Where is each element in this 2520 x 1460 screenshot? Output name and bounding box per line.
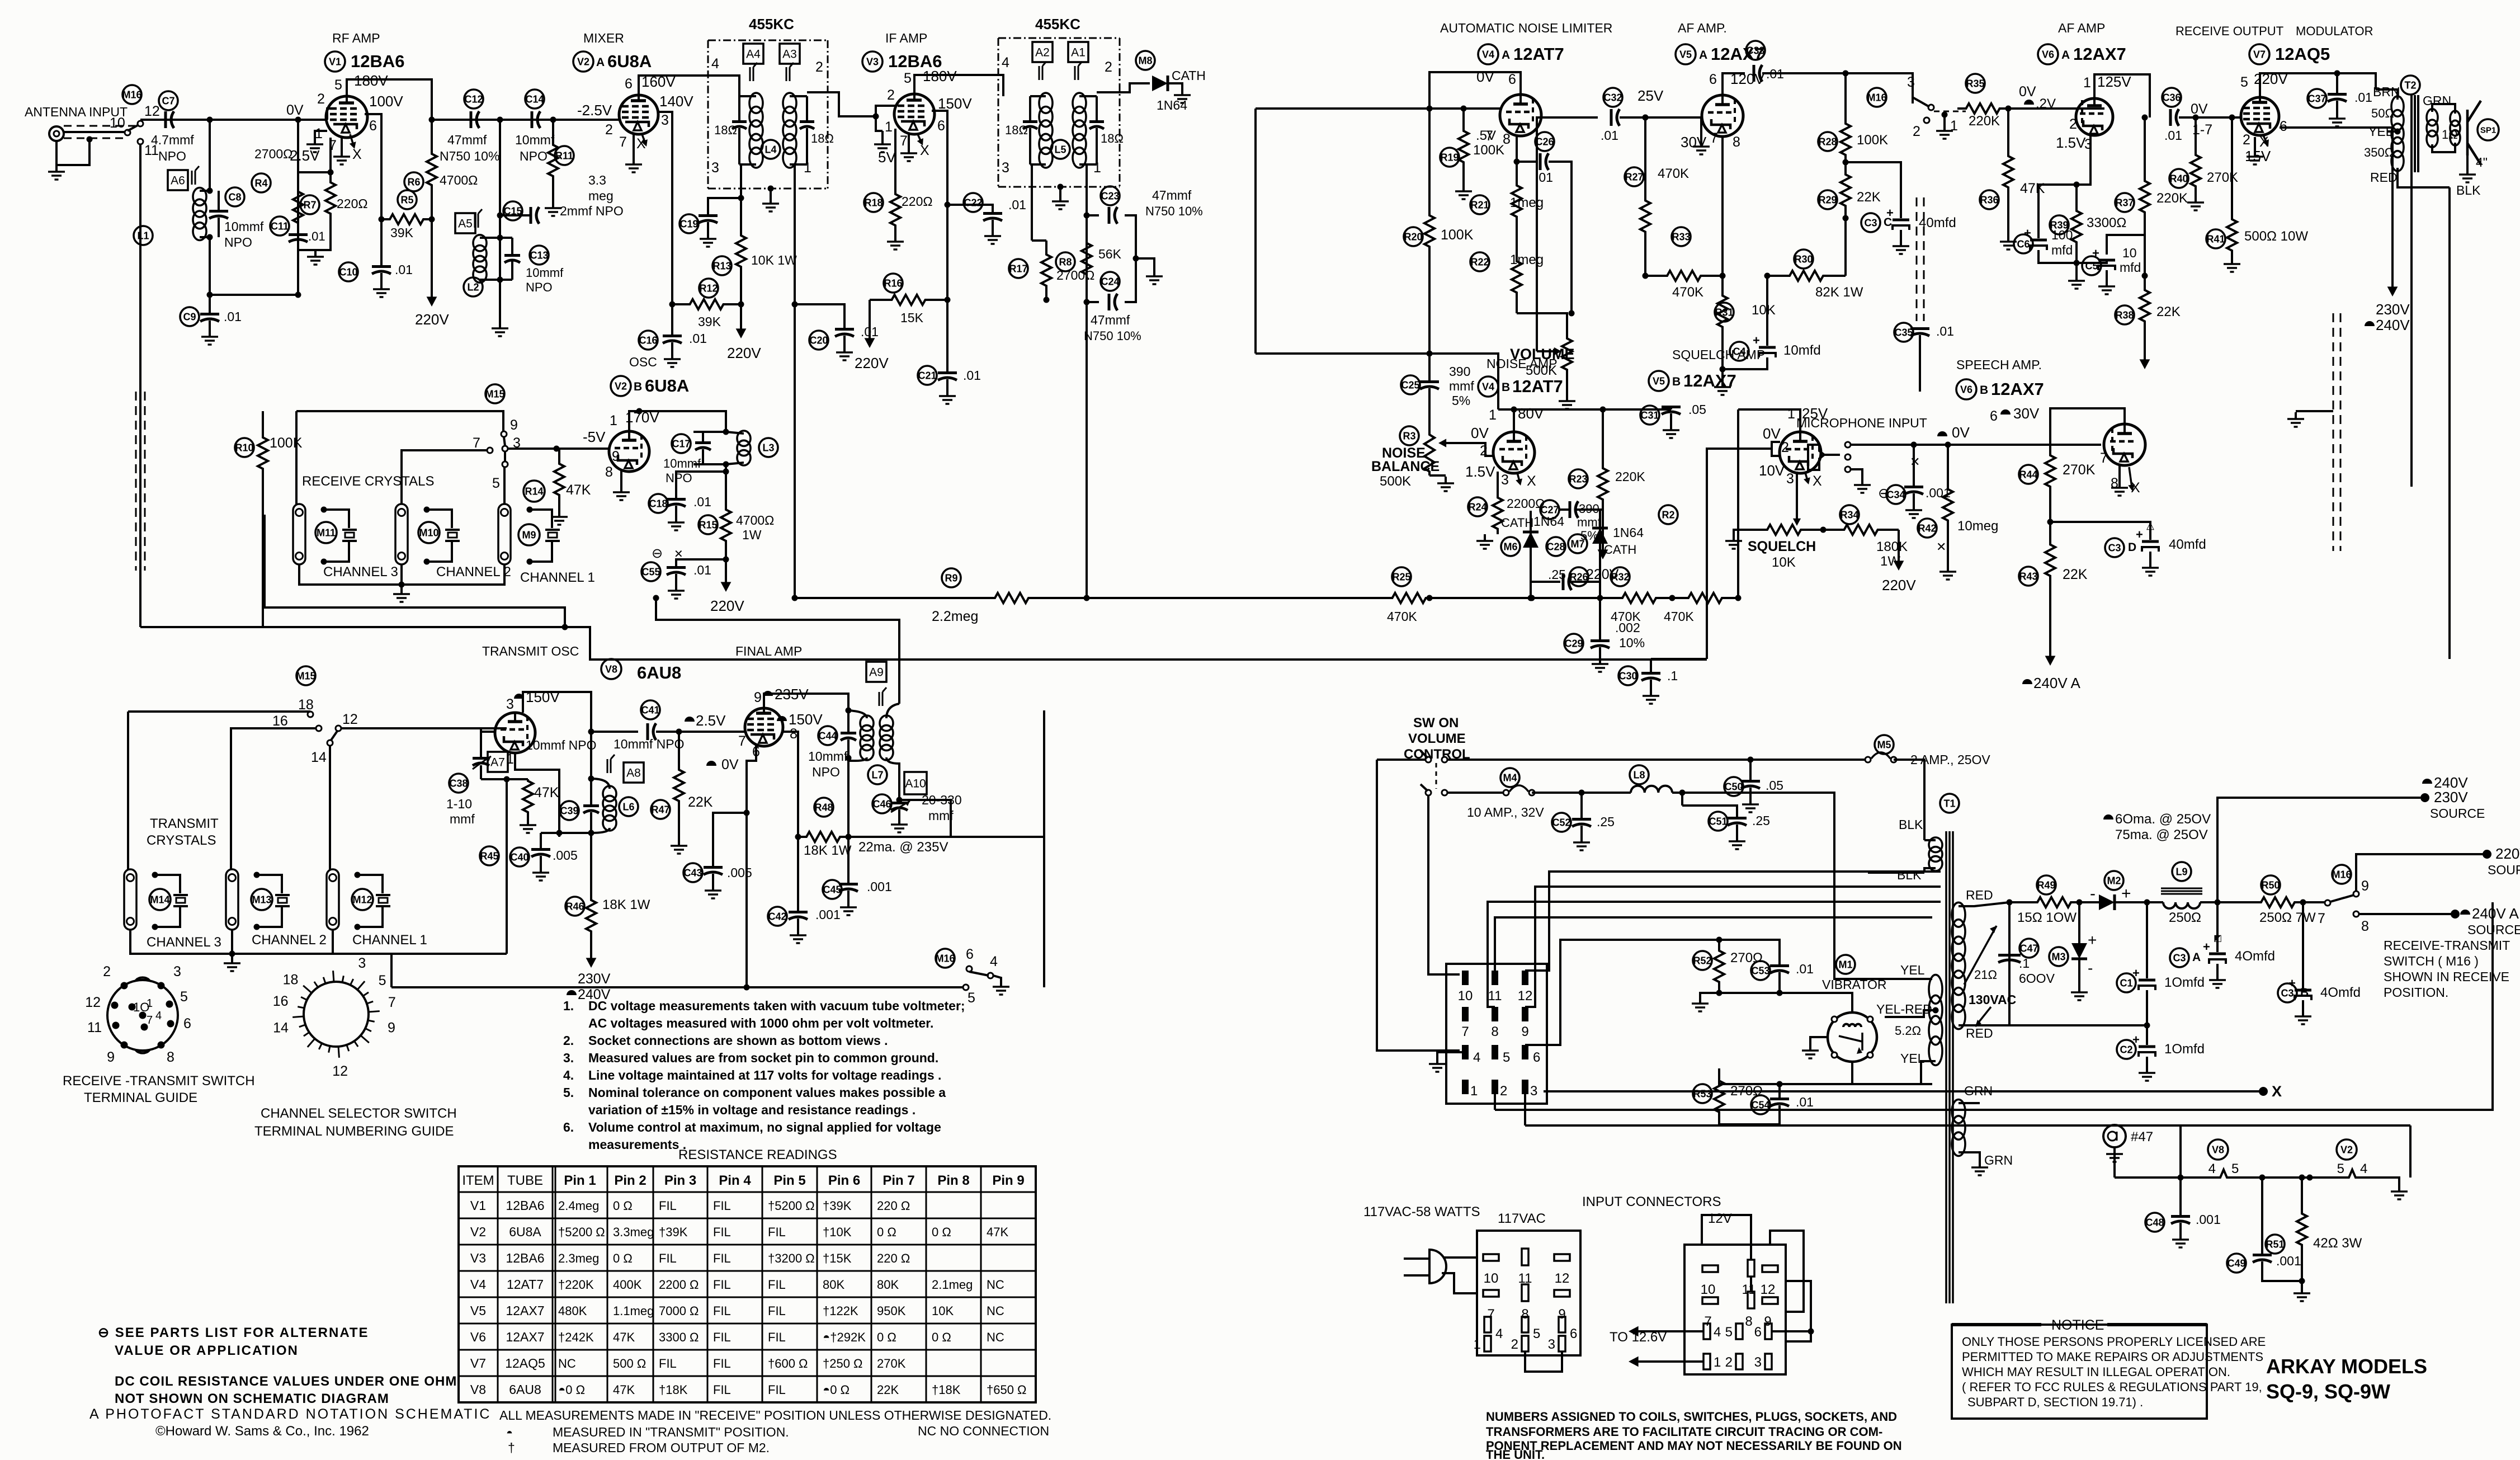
- svg-text:0 Ω: 0 Ω: [877, 1330, 896, 1344]
- svg-text:18Ω: 18Ω: [714, 123, 737, 137]
- ground C10: [380, 282, 383, 289]
- svg-text:8: 8: [2111, 475, 2118, 491]
- svg-text:5: 5: [968, 990, 975, 1006]
- svg-text:R51: R51: [2266, 1238, 2284, 1250]
- wire L5 pin3 down to R17: [1031, 164, 1033, 241]
- svg-text:R34: R34: [1840, 509, 1858, 520]
- svg-text:240V A: 240V A: [2472, 905, 2519, 922]
- tube V5A 12AX7 AF amp: [1702, 95, 1743, 136]
- diode M8 1N64: [1152, 76, 1168, 91]
- wire harness verticals: [1428, 796, 1460, 974]
- svg-text:R27: R27: [1625, 171, 1643, 182]
- resistor R49 15ohm 10W: [2037, 875, 2056, 894]
- wire switch pole1 to M5: [1447, 759, 1866, 761]
- svg-text:6: 6: [1990, 408, 1998, 424]
- svg-text:500K: 500K: [1526, 363, 1557, 378]
- svg-text:4: 4: [1714, 1325, 1721, 1340]
- svg-text:.25: .25: [1597, 814, 1615, 829]
- svg-text:4.7mmf: 4.7mmf: [151, 133, 194, 147]
- svg-text:R17: R17: [1009, 263, 1027, 274]
- label V6B 12AX7: [1956, 379, 1976, 399]
- svg-text:FIL: FIL: [713, 1251, 731, 1265]
- svg-text:.05: .05: [1688, 402, 1706, 417]
- wire L4 secondary to V3 grid: [807, 92, 876, 116]
- svg-text:.05: .05: [1766, 778, 1783, 793]
- label M8: [1136, 51, 1155, 70]
- svg-text:A: A: [1502, 49, 1510, 62]
- resistor R18 220ohm: [864, 193, 883, 212]
- X arrow mixer: [642, 134, 645, 143]
- wire pin2 pin3 down to heater harness: [1494, 1094, 1496, 1110]
- ground L2: [499, 322, 501, 328]
- svg-text:NC: NC: [987, 1304, 1004, 1318]
- capacitor C3B 40mfd: [2278, 983, 2297, 1002]
- svg-text:VOLUME: VOLUME: [1510, 346, 1575, 362]
- wire antenna link to switch: [899, 800, 951, 837]
- svg-text:CHANNEL SELECTOR SWITCH: CHANNEL SELECTOR SWITCH: [261, 1106, 457, 1121]
- label M15 receive selector: [485, 384, 504, 403]
- capacitor C46 20-330mmf: [872, 794, 891, 813]
- svg-text:1: 1: [315, 126, 323, 142]
- ground C9: [209, 330, 211, 337]
- capacitor C11 .01: [270, 216, 289, 236]
- svg-text:150V: 150V: [789, 711, 823, 728]
- svg-text:18Ω: 18Ω: [1101, 131, 1124, 145]
- coil L3: [737, 431, 751, 446]
- coil L5 secondary: [1073, 93, 1086, 113]
- svg-text:.25: .25: [1548, 567, 1566, 582]
- svg-text:470K: 470K: [1664, 609, 1694, 624]
- tube V3 12BA6 IF amp: [894, 94, 935, 134]
- wire M11 hanger: [295, 411, 298, 504]
- svg-text:18: 18: [298, 697, 314, 713]
- svg-text:TUBE: TUBE: [507, 1173, 543, 1188]
- svg-text:.01: .01: [395, 262, 413, 277]
- svg-text:6Oma. @ 25OV: 6Oma. @ 25OV: [2115, 812, 2211, 827]
- label V2 filament: [2337, 1139, 2357, 1160]
- svg-text:NC NO CONNECTION: NC NO CONNECTION: [918, 1424, 1049, 1438]
- svg-text:C1: C1: [2120, 977, 2132, 988]
- coil L4 primary: [749, 93, 763, 113]
- speaker cone: [2467, 101, 2481, 164]
- svg-text:AF AMP.: AF AMP.: [1678, 21, 1727, 35]
- svg-text:22ma. @ 235V: 22ma. @ 235V: [858, 840, 948, 855]
- svg-text:C51: C51: [1709, 816, 1727, 827]
- svg-text:FIL: FIL: [768, 1278, 786, 1292]
- ground M8: [1181, 88, 1183, 95]
- resistor R4 2700ohm: [252, 173, 271, 192]
- 12 pin socket outline: [1446, 964, 1547, 1104]
- svg-text:220K: 220K: [1615, 469, 1645, 484]
- svg-text:0 Ω: 0 Ω: [613, 1199, 633, 1213]
- svg-text:FIL: FIL: [659, 1199, 677, 1213]
- svg-text:R47: R47: [651, 804, 669, 815]
- wire bus continues: [1443, 597, 1606, 599]
- svg-text:CHANNEL 3: CHANNEL 3: [147, 935, 221, 950]
- wire R34 to 220V arrow: [1898, 530, 1900, 545]
- svg-text:NOTICE: NOTICE: [2051, 1317, 2104, 1333]
- 117VAC pins row 7 8 9: [1483, 1290, 1499, 1297]
- coil L1: [193, 188, 206, 206]
- tube V6B 12AX7 speech amp: [2104, 424, 2145, 465]
- svg-text:NC: NC: [987, 1278, 1004, 1292]
- capacitor C16 .01: [639, 331, 658, 350]
- junction R44 bottom: [2047, 519, 2054, 525]
- svg-text:A: A: [2192, 951, 2201, 964]
- crystal M13 channel 2: [257, 875, 282, 893]
- svg-text:.1: .1: [2019, 956, 2030, 971]
- capacitor C30 .1: [1618, 666, 1637, 685]
- svg-text:PONENT REPLACEMENT AND MAY NOT: PONENT REPLACEMENT AND MAY NOT NECESSARI…: [1486, 1439, 1902, 1453]
- svg-text:8: 8: [1745, 1314, 1752, 1329]
- wire final plate 235V to tank top: [764, 694, 848, 710]
- svg-text:6: 6: [1533, 1050, 1540, 1065]
- svg-text:9: 9: [510, 417, 518, 433]
- capacitor C5 10mfd: [2082, 256, 2101, 275]
- resistor R44 270K: [2019, 465, 2038, 484]
- svg-text:C11: C11: [271, 220, 289, 232]
- svg-text:11: 11: [87, 1020, 102, 1035]
- svg-text:C26: C26: [1535, 136, 1554, 147]
- ground pin1: [314, 138, 316, 144]
- svg-text:RECEIVE-TRANSMIT: RECEIVE-TRANSMIT: [2384, 938, 2510, 953]
- svg-text:1Omfd: 1Omfd: [2164, 1042, 2205, 1057]
- svg-text:R7: R7: [303, 199, 316, 210]
- wire final grid line: [744, 731, 745, 733]
- svg-text:270K: 270K: [877, 1357, 906, 1370]
- svg-text:FIL: FIL: [713, 1330, 731, 1344]
- wire 220V arrow under R23: [1602, 526, 1604, 554]
- svg-text:A6: A6: [171, 174, 185, 187]
- svg-text:950K: 950K: [877, 1304, 906, 1318]
- svg-text:12: 12: [1518, 988, 1533, 1004]
- tube V4B 12AT7 noise amp: [1493, 432, 1535, 473]
- svg-text:◩: ◩: [2214, 934, 2222, 943]
- svg-text:R43: R43: [2019, 571, 2037, 582]
- crystal M9 channel 1: [530, 510, 552, 528]
- svg-text:-: -: [2088, 959, 2093, 977]
- svg-text:FIL: FIL: [659, 1251, 677, 1265]
- svg-text:47mmf: 47mmf: [1091, 313, 1130, 327]
- resistor R7 220ohm: [300, 195, 319, 214]
- svg-text:10mmf NPO: 10mmf NPO: [526, 738, 597, 752]
- svg-text:V1: V1: [329, 56, 341, 67]
- svg-text:R45: R45: [480, 850, 498, 861]
- svg-text:A: A: [1699, 49, 1707, 62]
- svg-text:ITEM: ITEM: [462, 1173, 494, 1188]
- 12V pins row 10 11 12: [1702, 1265, 1718, 1272]
- svg-text:R12: R12: [699, 282, 718, 294]
- wire L4 pin3 down: [740, 164, 742, 198]
- label M16: [122, 85, 141, 104]
- svg-text:X: X: [1813, 473, 1822, 489]
- capacitor C35 .01: [1894, 323, 1913, 342]
- wire contact12 to crystal line: [341, 727, 507, 729]
- svg-text:2200Ω: 2200Ω: [1507, 496, 1545, 511]
- svg-text:2.: 2.: [563, 1033, 574, 1048]
- svg-text:C6: C6: [2017, 238, 2030, 249]
- tube V2A 6U8A mixer: [619, 95, 658, 134]
- wire screen pin8 right down: [783, 732, 798, 837]
- wire L5 center tap ground: [1059, 187, 1061, 195]
- label M10: [418, 522, 440, 543]
- svg-text:4: 4: [2360, 1161, 2367, 1176]
- svg-text:+: +: [2024, 226, 2031, 240]
- svg-text:CHANNEL 1: CHANNEL 1: [520, 570, 595, 585]
- svg-text:V2: V2: [2340, 1144, 2353, 1155]
- svg-text:†15K: †15K: [823, 1251, 852, 1265]
- svg-text:VALUE OR APPLICATION: VALUE OR APPLICATION: [115, 1343, 299, 1358]
- wire branch down to L1 tank: [209, 120, 211, 191]
- wire C38 to crystal line: [481, 778, 507, 780]
- svg-text:M15: M15: [296, 670, 315, 681]
- coil L5 primary: [1039, 93, 1053, 113]
- svg-text:RESISTANCE READINGS: RESISTANCE READINGS: [678, 1147, 837, 1162]
- svg-text:R35: R35: [1966, 78, 1984, 89]
- wire plate pin6 to rail to L4: [639, 76, 739, 96]
- svg-text:220V: 220V: [727, 345, 761, 361]
- svg-text:R25: R25: [1392, 571, 1410, 582]
- svg-text:+: +: [2092, 246, 2099, 260]
- receive-transmit switch terminal guide: [107, 980, 178, 1051]
- svg-text:V2: V2: [577, 56, 589, 67]
- wire bottom transmit bus: [391, 986, 966, 988]
- svg-text:220Ω: 220Ω: [337, 196, 368, 211]
- svg-text:47mmf: 47mmf: [1152, 188, 1192, 202]
- svg-text:10mmf: 10mmf: [515, 133, 555, 147]
- svg-text:C41: C41: [641, 704, 659, 715]
- svg-text:B: B: [1980, 384, 1988, 397]
- svg-text:6: 6: [937, 118, 945, 134]
- svg-text:1: 1: [1470, 1084, 1478, 1099]
- wire PSU bottom rail: [2009, 1024, 2147, 1026]
- wire to V4A grid: [1429, 107, 1464, 110]
- capacitor C19 .01: [679, 214, 699, 233]
- svg-text:16: 16: [273, 993, 289, 1009]
- svg-text:1.: 1.: [563, 999, 574, 1013]
- svg-text:47K: 47K: [987, 1225, 1008, 1239]
- svg-text:+: +: [2121, 884, 2131, 903]
- svg-text:.01: .01: [693, 494, 711, 509]
- svg-text:12: 12: [144, 103, 160, 119]
- svg-text:FIL: FIL: [713, 1383, 731, 1397]
- svg-text:V1: V1: [470, 1198, 486, 1213]
- svg-text:2.4meg: 2.4meg: [558, 1199, 599, 1213]
- wire osc cathode down to bus: [515, 753, 559, 837]
- svg-text:C48: C48: [2145, 1217, 2164, 1228]
- ground GRN winding: [1979, 1161, 1981, 1167]
- wire V7 grid entry: [2229, 116, 2241, 119]
- ground C30: [1650, 689, 1652, 696]
- capacitor C55 .01: [641, 562, 660, 581]
- wire pin11 up harness: [1495, 917, 1932, 971]
- svg-text:0V: 0V: [1952, 424, 1970, 441]
- svg-text:FIL: FIL: [713, 1225, 731, 1239]
- svg-text:R37: R37: [2115, 197, 2134, 208]
- svg-text:V4: V4: [470, 1277, 486, 1292]
- wire to R50: [2217, 901, 2253, 903]
- svg-text:SWITCH ( M16 ): SWITCH ( M16 ): [2384, 954, 2479, 968]
- svg-text:THE UNIT.: THE UNIT.: [1486, 1448, 1545, 1460]
- svg-text:6OOV: 6OOV: [2019, 971, 2055, 986]
- svg-text:C27: C27: [1540, 504, 1559, 515]
- svg-text:RECEIVE -TRANSMIT SWITCH: RECEIVE -TRANSMIT SWITCH: [63, 1073, 255, 1089]
- svg-text:9: 9: [388, 1020, 395, 1036]
- trimmer A2: [1032, 42, 1053, 62]
- capacitor C53 .01: [1751, 961, 1770, 980]
- svg-text:V8: V8: [605, 663, 617, 675]
- svg-text:10: 10: [1484, 1271, 1499, 1286]
- resistor R38 22K: [2115, 305, 2134, 324]
- wire pin11 down to lower bus: [139, 144, 141, 627]
- svg-text:V4: V4: [1482, 49, 1494, 60]
- capacitor C28 .25: [1546, 537, 1565, 556]
- svg-text:30V: 30V: [1681, 134, 1707, 150]
- svg-text:3: 3: [1501, 472, 1509, 488]
- svg-text:⊖ SEE PARTS LIST FOR ALTERNATE: ⊖ SEE PARTS LIST FOR ALTERNATE: [98, 1325, 369, 1340]
- svg-text:V3: V3: [866, 56, 879, 67]
- capacitor C42 .001: [768, 907, 787, 926]
- svg-text:6: 6: [966, 946, 974, 962]
- svg-text:3.3: 3.3: [588, 173, 606, 187]
- svg-text:R6: R6: [407, 176, 420, 187]
- svg-text:-5V: -5V: [583, 428, 606, 445]
- svg-text:5%: 5%: [1580, 529, 1598, 543]
- svg-text:A7: A7: [490, 756, 505, 769]
- label M16 psu switch: [2332, 865, 2351, 884]
- svg-text:Line voltage maintained at 117: Line voltage maintained at 117 volts for…: [588, 1068, 941, 1082]
- wire plate loop 0V: [1429, 72, 1521, 109]
- svg-text:.25: .25: [1752, 813, 1770, 828]
- svg-text:18K 1W: 18K 1W: [804, 843, 852, 858]
- svg-text:.01: .01: [1601, 128, 1618, 143]
- ground V5A grid stub: [1700, 117, 1702, 140]
- svg-text:B: B: [2300, 986, 2309, 999]
- svg-text:7: 7: [2100, 450, 2108, 466]
- svg-text:†10K: †10K: [823, 1225, 852, 1239]
- svg-text:M4: M4: [1503, 772, 1517, 783]
- svg-text:RED: RED: [1966, 1026, 1993, 1040]
- svg-text:220K: 220K: [1969, 114, 2000, 129]
- svg-text:R23: R23: [1569, 473, 1587, 484]
- capacitor C45 .001: [823, 880, 842, 899]
- svg-text:A8: A8: [626, 766, 641, 779]
- wire V1 plate to mixer grid: [432, 119, 604, 121]
- ground C21: [946, 389, 948, 396]
- svg-text:47K: 47K: [613, 1330, 635, 1344]
- svg-text:12BA6: 12BA6: [506, 1251, 544, 1265]
- resistor R50 250ohm 7W: [2261, 875, 2280, 894]
- svg-text:22K: 22K: [2156, 304, 2181, 319]
- svg-text:240V: 240V: [2376, 317, 2410, 333]
- ground stub C23 C24: [1136, 258, 1154, 270]
- svg-text:M5: M5: [1877, 739, 1891, 750]
- svg-text:47K: 47K: [613, 1383, 635, 1397]
- svg-text:CHANNEL 2: CHANNEL 2: [252, 932, 327, 948]
- wire shield ground branch: [56, 139, 89, 165]
- svg-text:C33: C33: [1746, 45, 1764, 56]
- svg-text:C30: C30: [1618, 670, 1637, 681]
- svg-text:FIL: FIL: [713, 1304, 731, 1318]
- svg-text:C17: C17: [672, 438, 690, 449]
- svg-text:RF AMP: RF AMP: [332, 31, 380, 45]
- wire R38 down arrow: [2144, 336, 2146, 364]
- svg-text:V5: V5: [1653, 375, 1665, 387]
- svg-text:L2: L2: [467, 281, 479, 293]
- svg-text:R38: R38: [2115, 309, 2134, 321]
- capacitor C10 .01: [339, 262, 358, 281]
- resistor R11 3.3meg: [555, 146, 574, 165]
- svg-text:X: X: [1527, 473, 1536, 489]
- svg-text:BLK: BLK: [2456, 183, 2481, 197]
- capacitor C27 390mmf: [1540, 500, 1559, 519]
- svg-text:C21: C21: [918, 370, 936, 381]
- svg-text:CHANNEL 2: CHANNEL 2: [436, 564, 511, 580]
- wire rail to T2: [2326, 73, 2376, 90]
- svg-text:Measured values are from socke: Measured values are from socket pin to c…: [588, 1051, 938, 1065]
- svg-text:220V: 220V: [1882, 577, 1916, 594]
- svg-text:C3: C3: [1864, 217, 1877, 228]
- lamp #47: [2113, 1147, 2116, 1178]
- svg-text:270K: 270K: [2063, 462, 2096, 478]
- svg-text:M8: M8: [1138, 55, 1152, 66]
- capacitor C54 .01: [1751, 1095, 1770, 1114]
- svg-text:2mmf NPO: 2mmf NPO: [560, 204, 624, 218]
- wire RED bottom down: [2410, 172, 2413, 487]
- ground C42: [797, 929, 799, 935]
- capacitor C9 .01: [180, 307, 199, 326]
- svg-text:56K: 56K: [1098, 247, 1122, 261]
- svg-text:◓0 Ω: ◓0 Ω: [823, 1383, 850, 1397]
- crystal holder M13: [226, 869, 238, 930]
- svg-text:R13: R13: [712, 260, 731, 271]
- wire vibrator coil to ground: [1810, 1037, 1828, 1044]
- resistor R20 100K: [1404, 227, 1423, 246]
- svg-text:V3: V3: [470, 1251, 486, 1265]
- svg-text:R19: R19: [1440, 152, 1459, 163]
- wire contact 7 to M10: [402, 450, 487, 504]
- svg-text:2200 Ω: 2200 Ω: [659, 1278, 699, 1292]
- resistor R28 100K: [1818, 132, 1837, 151]
- svg-text:40mfd: 40mfd: [2169, 537, 2206, 552]
- svg-text:R52: R52: [1693, 955, 1711, 966]
- capacitor C49 .001: [2227, 1254, 2246, 1273]
- svg-text:M3: M3: [2051, 951, 2065, 962]
- ground C31: [1670, 423, 1672, 430]
- svg-text:TERMINAL NUMBERING GUIDE: TERMINAL NUMBERING GUIDE: [254, 1124, 454, 1139]
- svg-text:V6: V6: [2042, 49, 2054, 60]
- svg-text:L9: L9: [2175, 866, 2187, 877]
- capacitor C36 .01: [2162, 88, 2181, 107]
- svg-text:3: 3: [1754, 1355, 1762, 1370]
- svg-text:AF AMP: AF AMP: [2058, 21, 2105, 35]
- ground R7 C11: [314, 250, 317, 257]
- svg-text:0 Ω: 0 Ω: [877, 1225, 896, 1239]
- label V5B 12AX7: [1649, 371, 1669, 391]
- trimmer A10: [904, 772, 927, 794]
- svg-text:R49: R49: [2037, 879, 2055, 891]
- svg-text:L7: L7: [871, 769, 883, 780]
- svg-text:meg: meg: [588, 189, 614, 203]
- capacitor C18 .01: [649, 494, 668, 513]
- ground C5: [2106, 280, 2108, 286]
- svg-text:3: 3: [1530, 1084, 1537, 1099]
- svg-text:V4: V4: [1482, 381, 1494, 392]
- svg-text:6: 6: [369, 118, 377, 134]
- svg-text:100K: 100K: [1473, 143, 1504, 158]
- wire X line: [1544, 1090, 2259, 1092]
- ground R18: [894, 235, 896, 242]
